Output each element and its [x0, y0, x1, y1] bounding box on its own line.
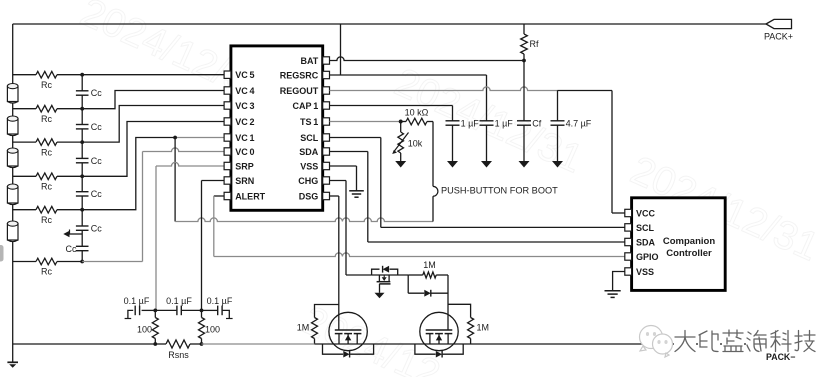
wire CHG	[330, 181, 372, 276]
watermark logo and text bottom right	[640, 326, 817, 358]
U1 right pins BAT-DSG	[280, 56, 330, 202]
ground arrow under thermistor	[395, 161, 406, 168]
svg-text:VSS: VSS	[636, 267, 654, 277]
svg-text:10 kΩ: 10 kΩ	[405, 108, 429, 118]
node A boot net from VC1	[175, 138, 433, 222]
svg-text:100: 100	[137, 325, 152, 335]
capacitor 0.1uF A	[124, 296, 156, 319]
wire REGOUT	[330, 87, 625, 213]
capacitor Cc 2	[76, 122, 102, 132]
svg-text:ALERT: ALERT	[235, 191, 265, 201]
zener Z1 across Q2	[323, 344, 374, 358]
ground arrow under cap x=524	[519, 161, 530, 168]
wire DSG	[330, 196, 339, 330]
node SRP junction	[153, 309, 157, 313]
svg-text:Rc: Rc	[41, 267, 52, 277]
capacitor 1 uF at x=486.5	[480, 118, 514, 161]
watermark partial logo left edge	[0, 245, 4, 262]
wire rail to REGSRC	[340, 24, 342, 75]
ground arrow under cap x=557.5	[552, 161, 563, 168]
svg-text:1 µF: 1 µF	[495, 118, 514, 128]
U2 pins VCC SCL SDA GPIO VSS	[625, 208, 659, 277]
svg-text:Cc: Cc	[91, 156, 102, 166]
capacitor ladder Cc bus	[81, 75, 83, 262]
capacitor 1 uF at x=452.5	[446, 118, 480, 161]
wire SRN	[202, 181, 225, 311]
svg-text:Cc: Cc	[91, 88, 102, 98]
svg-text:PACK+: PACK+	[764, 32, 793, 42]
svg-text:Rc: Rc	[41, 147, 52, 157]
wire VC4	[82, 91, 224, 109]
svg-text:CHG: CHG	[298, 176, 318, 186]
wire bottom rail left	[13, 343, 156, 345]
resistor 100 right	[199, 310, 221, 346]
capacitor Cf at x=524	[517, 118, 542, 161]
resistor Rc tap 3	[13, 139, 84, 158]
resistor 1M gate-source right	[448, 304, 489, 344]
resistor Rc tap 2	[13, 105, 84, 124]
wire BAT	[330, 57, 526, 63]
wire companion VSS to ground	[613, 272, 625, 291]
svg-text:1M: 1M	[297, 323, 310, 333]
wire 4.7uF top from REGOUT	[557, 91, 559, 121]
wire VSS to ground	[330, 166, 357, 191]
resistor Rc tap 6	[13, 258, 84, 277]
svg-text:VC 5: VC 5	[235, 70, 254, 80]
U1 left pins VC5-ALERT	[224, 70, 266, 201]
resistor 1M gate-source left	[297, 305, 339, 345]
svg-text:1 µF: 1 µF	[461, 118, 480, 128]
node SRN junction	[200, 309, 204, 313]
push-button for boot	[433, 122, 558, 222]
svg-text:PACK−: PACK−	[766, 352, 795, 362]
svg-text:Cc: Cc	[91, 189, 102, 199]
svg-text:1M: 1M	[423, 260, 436, 270]
svg-text:Rf: Rf	[530, 39, 539, 49]
resistor Rf	[521, 24, 539, 61]
svg-text:Cc: Cc	[66, 244, 77, 254]
wire VC0	[82, 148, 224, 262]
wire Cf top from BAT node	[523, 61, 525, 121]
wire VC5	[82, 74, 224, 76]
ground arrow under Q1	[375, 293, 385, 299]
wire SDA	[330, 152, 625, 243]
wire right FET gate	[447, 275, 449, 330]
svg-text:VSS: VSS	[300, 161, 318, 171]
svg-text:VC 4: VC 4	[235, 86, 254, 96]
svg-text:REGOUT: REGOUT	[280, 86, 319, 96]
svg-text:VC 3: VC 3	[235, 101, 254, 111]
ground arrow under cap x=486.5	[481, 161, 492, 168]
capacitor 4.7 uF at x=557.5	[551, 118, 592, 161]
battery cell 3	[7, 148, 18, 168]
capacitor 0.1uF B	[155, 296, 201, 315]
svg-text:VC 0: VC 0	[235, 147, 254, 157]
diode D1 bypass	[372, 266, 398, 275]
resistor Rc tap 5	[13, 206, 84, 225]
svg-text:VCC: VCC	[636, 208, 656, 218]
wire stack bottom to rail	[12, 241, 14, 344]
svg-text:Rc: Rc	[41, 215, 52, 225]
capacitor Cc 6	[66, 244, 89, 254]
svg-text:REGSRC: REGSRC	[280, 70, 319, 80]
ground bottom left	[7, 344, 18, 368]
svg-text:100: 100	[205, 325, 220, 335]
wire CAP1	[330, 106, 453, 121]
svg-text:BAT: BAT	[300, 56, 318, 66]
svg-text:SRP: SRP	[235, 161, 254, 171]
resistor Rc tap 1	[13, 71, 84, 90]
svg-text:Rc: Rc	[41, 182, 52, 192]
svg-text:Cc: Cc	[91, 224, 102, 234]
diode D2 parallel	[408, 275, 448, 297]
battery cell 1	[7, 84, 18, 104]
svg-text:SRN: SRN	[235, 176, 254, 186]
svg-text:CAP 1: CAP 1	[292, 101, 318, 111]
wire stack segment 2	[12, 135, 14, 148]
resistor Rc tap 4	[13, 173, 84, 192]
svg-text:0.1 µF: 0.1 µF	[166, 296, 192, 306]
watermark logo text	[674, 330, 696, 353]
battery cell 5	[7, 221, 18, 242]
node TS1 pullup	[399, 120, 403, 124]
wire battery stack top	[12, 24, 14, 84]
resistor 100 left	[137, 310, 158, 346]
ground companion	[605, 291, 621, 298]
capacitor Cc 3	[76, 156, 102, 166]
wire bottom rail right	[315, 343, 767, 345]
svg-text:Rsns: Rsns	[168, 350, 189, 360]
wire stack segment 4	[12, 204, 14, 221]
resistor Rsns	[155, 340, 201, 360]
svg-text:Companion: Companion	[663, 236, 715, 247]
svg-text:Controller: Controller	[666, 248, 712, 259]
svg-text:DSG: DSG	[299, 191, 319, 201]
wire VC2	[82, 122, 224, 177]
wire stack segment 3	[12, 167, 14, 184]
wire REGSRC	[330, 75, 487, 121]
svg-text:0.1 µF: 0.1 µF	[207, 296, 233, 306]
wire SCL	[330, 138, 625, 228]
svg-text:SCL: SCL	[300, 133, 319, 143]
battery cell 4	[7, 184, 18, 205]
svg-text:TS 1: TS 1	[300, 117, 318, 127]
wire top rail PACK+	[13, 23, 766, 25]
svg-text:0.1 µF: 0.1 µF	[124, 296, 150, 306]
reference arrow on Cc bus	[63, 230, 82, 238]
ground arrow under cap x=452.5	[447, 161, 458, 168]
svg-text:VC 1: VC 1	[235, 133, 254, 143]
connector PACK+ terminal	[764, 19, 793, 41]
wire VC3	[82, 106, 224, 143]
svg-text:4.7 µF: 4.7 µF	[566, 118, 592, 128]
transistor Q1 small FET	[372, 275, 409, 293]
IC U2 companion controller box	[632, 198, 726, 291]
ground VSS	[349, 191, 364, 197]
svg-text:Cc: Cc	[91, 122, 102, 132]
resistor 1M gate series	[408, 260, 448, 278]
wire bottom rail gray segment	[202, 343, 315, 345]
svg-text:PUSH-BUTTON FOR BOOT: PUSH-BUTTON FOR BOOT	[441, 186, 558, 196]
wire SRP	[156, 162, 224, 310]
zener Z2 across Q3	[415, 344, 463, 358]
svg-text:Rc: Rc	[41, 80, 52, 90]
svg-text:SDA: SDA	[299, 147, 319, 157]
wire TS1	[330, 120, 403, 124]
capacitor 0.1uF C	[202, 296, 233, 319]
svg-text:Rc: Rc	[41, 114, 52, 124]
capacitor Cc 5	[76, 224, 102, 234]
svg-text:VC 2: VC 2	[235, 117, 254, 127]
transistor Q2 DSG FET	[329, 312, 367, 350]
svg-text:1M: 1M	[477, 323, 490, 333]
transistor Q3 CHG FET	[420, 312, 458, 350]
wire ALERT to GPIO	[214, 196, 625, 257]
wire VC1	[82, 136, 224, 210]
svg-text:10k: 10k	[408, 139, 423, 149]
svg-text:SCL: SCL	[636, 223, 655, 233]
capacitor Cc 4	[76, 189, 102, 199]
capacitor Cc 1	[76, 88, 102, 98]
svg-text:GPIO: GPIO	[636, 252, 659, 262]
resistor 10 kOhm	[401, 108, 433, 125]
svg-text:Cf: Cf	[532, 118, 541, 128]
svg-text:SDA: SDA	[636, 237, 656, 247]
IC U1 battery monitor box	[231, 46, 323, 210]
thermistor 10k	[392, 122, 423, 162]
battery cell 2	[7, 116, 18, 136]
label PACK-	[766, 352, 795, 362]
wire stack segment 1	[12, 103, 14, 117]
